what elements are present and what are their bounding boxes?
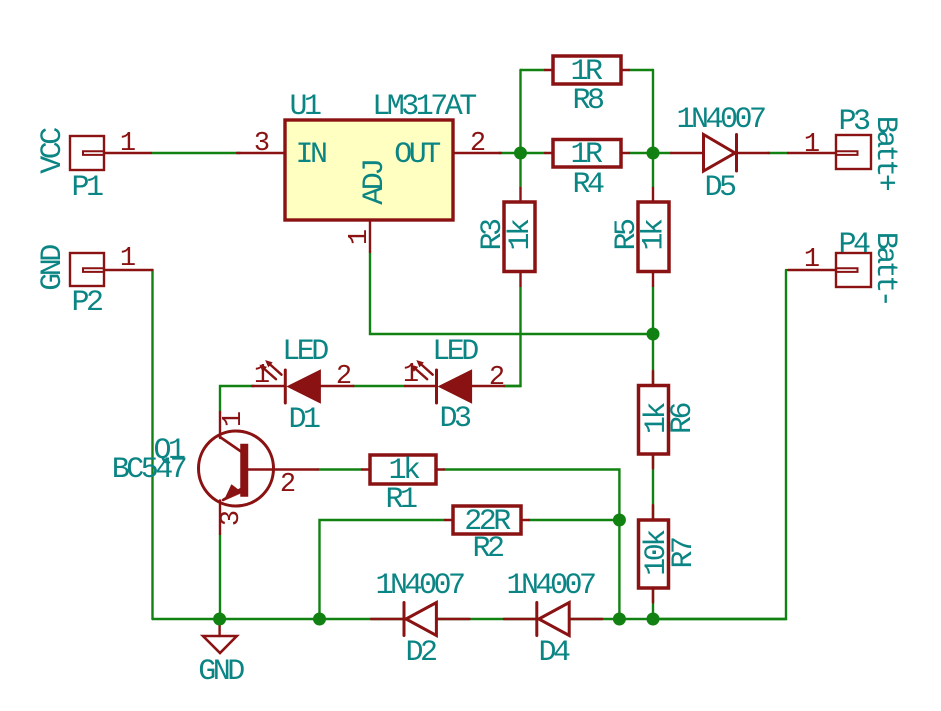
resistor R5 <box>638 188 669 286</box>
svg-text:1k: 1k <box>640 403 674 435</box>
svg-text:Batt+: Batt+ <box>868 116 902 191</box>
op-amp U1 regulator LM317 body <box>285 120 453 220</box>
resistor R1 <box>362 455 444 484</box>
svg-text:1: 1 <box>345 229 375 245</box>
svg-text:BC547: BC547 <box>112 453 186 487</box>
diode D2 <box>371 603 470 636</box>
U1 pin 3 <box>237 152 285 154</box>
resistor R6 <box>639 371 669 469</box>
svg-text:LED: LED <box>432 335 478 369</box>
connector P2 <box>70 253 153 286</box>
svg-text:1: 1 <box>120 244 136 274</box>
U1 pin 1 <box>369 220 371 252</box>
resistor R2 <box>445 506 529 534</box>
svg-text:1: 1 <box>804 245 820 275</box>
svg-text:R1: R1 <box>385 483 417 517</box>
wire D1 to D3 <box>353 385 405 387</box>
svg-text:P3: P3 <box>838 105 870 139</box>
svg-text:D2: D2 <box>405 636 436 670</box>
wire Q1 base to R1 <box>318 468 362 470</box>
svg-text:1N4007: 1N4007 <box>506 569 595 603</box>
wire D5 to P3 <box>768 152 788 154</box>
junction node at R4/R8/R5/D5 <box>647 147 660 160</box>
wire D3 to R3 column <box>504 385 521 387</box>
svg-text:P2: P2 <box>71 286 102 320</box>
wire R7 bottom to rail <box>652 588 654 619</box>
wire Q1 collector to D1 <box>220 386 254 412</box>
junction node ADJ/R5/R6 <box>647 328 660 341</box>
wire R2 left down to rail <box>320 520 446 619</box>
svg-text:GND: GND <box>198 655 244 689</box>
svg-text:1: 1 <box>254 361 270 391</box>
connector P4 <box>788 253 871 287</box>
junction node at OUT/R4/R8 left <box>514 147 527 160</box>
wire P4 down to rail <box>653 270 786 619</box>
svg-text:R8: R8 <box>572 84 604 118</box>
wire R6 bottom to R7 top <box>652 454 654 520</box>
svg-text:P4: P4 <box>838 228 870 262</box>
svg-text:1R: 1R <box>570 138 603 172</box>
wire R4 right to D5 <box>629 152 671 154</box>
svg-text:R4: R4 <box>572 168 604 202</box>
wire R1 right down to rail <box>444 470 619 620</box>
svg-text:D3: D3 <box>439 402 471 436</box>
svg-text:R2: R2 <box>472 532 503 566</box>
svg-text:1k: 1k <box>504 219 538 251</box>
svg-text:LED: LED <box>282 335 328 369</box>
wire P2 down to rail <box>151 270 153 619</box>
U1 pin 2 <box>453 152 501 154</box>
svg-text:2: 2 <box>336 362 352 392</box>
wire ADJ junction to R6 top <box>652 334 654 386</box>
diode D5 <box>671 135 769 172</box>
LED D3 <box>405 361 504 403</box>
svg-text:1: 1 <box>120 129 136 159</box>
resistor R3 <box>504 188 535 286</box>
resistor R7 <box>639 505 669 603</box>
svg-text:OUT: OUT <box>394 138 440 172</box>
junction node R1 column/GND rail <box>613 613 626 626</box>
wire R8 loop right vertical <box>652 70 654 153</box>
wire ground rail right <box>569 618 786 620</box>
svg-text:VCC: VCC <box>36 128 70 174</box>
svg-text:1: 1 <box>403 360 419 390</box>
svg-text:2: 2 <box>280 470 296 500</box>
junction node R7/GND rail <box>647 613 660 626</box>
wire ADJ net <box>370 252 653 334</box>
junction node R1/R2/R7 column <box>613 514 626 527</box>
connector P3 <box>788 135 871 169</box>
svg-text:1N4007: 1N4007 <box>676 103 765 137</box>
svg-text:LM317AT: LM317AT <box>372 90 476 124</box>
wire P1 to U1 pin3 <box>151 152 240 154</box>
svg-text:2: 2 <box>489 363 505 393</box>
svg-text:2: 2 <box>470 129 486 159</box>
wire junction to R3 top <box>519 153 521 188</box>
svg-text:3: 3 <box>254 129 270 159</box>
LED D1 <box>252 361 353 403</box>
svg-text:U1: U1 <box>289 90 321 124</box>
ground <box>203 619 237 653</box>
svg-text:1: 1 <box>219 411 249 427</box>
svg-text:Batt-: Batt- <box>868 232 902 305</box>
wire junction to R5 top <box>652 153 654 188</box>
wire R8 loop left vertical <box>519 70 521 153</box>
svg-text:D4: D4 <box>538 636 570 670</box>
svg-text:D1: D1 <box>288 403 320 437</box>
wire R8 loop left horizontal <box>521 69 546 71</box>
svg-text:D5: D5 <box>704 171 736 205</box>
wire R5 bottom to ADJ junction <box>652 286 654 334</box>
svg-text:ADJ: ADJ <box>358 161 392 205</box>
wire ground rail mid <box>436 618 536 620</box>
svg-text:1N4007: 1N4007 <box>375 569 464 603</box>
wire R8 loop right horizontal <box>629 69 653 71</box>
svg-text:GND: GND <box>36 245 70 291</box>
wire R2 right to vertical <box>529 519 619 521</box>
diode D4 <box>504 603 602 636</box>
wire U1 pin2 to R4 junction <box>499 152 545 154</box>
resistor R4 <box>545 140 629 168</box>
svg-text:1: 1 <box>804 130 820 160</box>
junction node emitter/GND rail <box>213 613 226 626</box>
connector P1 <box>70 136 151 170</box>
svg-text:IN: IN <box>295 138 326 172</box>
svg-text:P1: P1 <box>71 171 103 205</box>
svg-text:10k: 10k <box>640 530 674 576</box>
transistor Q1 <box>199 412 319 534</box>
resistor R8 <box>545 56 629 84</box>
wire ground rail left <box>153 618 405 620</box>
wire Q1 emitter to rail <box>219 534 221 619</box>
wire R3 bottom to D3 pin2 corner <box>504 286 521 386</box>
junction node R2 wire/GND rail <box>313 613 326 626</box>
svg-text:3: 3 <box>217 510 247 526</box>
svg-text:1k: 1k <box>638 219 672 251</box>
